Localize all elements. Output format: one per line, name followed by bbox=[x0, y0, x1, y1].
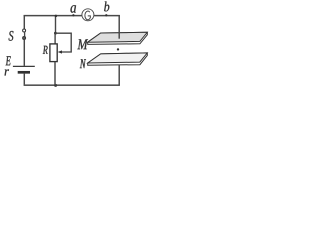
rheostat wiper arrowhead bbox=[58, 50, 62, 53]
plate M top face bbox=[88, 32, 148, 42]
resistor R box bbox=[50, 44, 57, 62]
plate N top face bbox=[88, 53, 148, 63]
wire left upper (corner to switch) bbox=[23, 15, 25, 29]
label N bbox=[80, 59, 86, 68]
label E bbox=[6, 56, 11, 65]
battery short plate bbox=[18, 71, 30, 74]
rheostat wiper arm bbox=[55, 33, 71, 52]
node junction bottom wire bbox=[54, 84, 57, 87]
switch S contact bottom bbox=[23, 37, 26, 40]
wire junction to resistor top bbox=[54, 33, 56, 44]
wire bottom bbox=[24, 84, 120, 86]
galvanometer G circle bbox=[82, 9, 94, 21]
wire left lower (battery to bottom corner) bbox=[23, 74, 25, 86]
label M bbox=[77, 39, 88, 49]
wire resistor bottom to bottom wire bbox=[54, 62, 56, 85]
charge dot between plates bbox=[117, 48, 119, 50]
label R bbox=[43, 46, 48, 54]
label G bbox=[85, 11, 90, 20]
switch S contact top bbox=[23, 29, 26, 32]
battery long plate bbox=[13, 65, 35, 67]
wire left middle (switch to battery) bbox=[23, 40, 25, 66]
node junction on top wire bbox=[55, 15, 58, 18]
label r bbox=[5, 69, 9, 75]
wire right upper (into plate M) bbox=[118, 15, 120, 39]
plate M outer 3d edge bbox=[88, 32, 148, 44]
label S bbox=[9, 31, 14, 41]
wire middle branch upper bbox=[55, 15, 57, 33]
node junction rheostat tap bbox=[54, 32, 57, 35]
label a bbox=[71, 5, 77, 13]
switch S blade bbox=[24, 32, 26, 37]
node a dot bbox=[72, 14, 74, 16]
node b dot bbox=[105, 14, 107, 16]
wire top bbox=[24, 15, 120, 17]
plate N outer 3d edge bbox=[88, 53, 148, 65]
label b bbox=[104, 2, 109, 12]
wire plate N down to bottom wire bbox=[118, 65, 120, 85]
